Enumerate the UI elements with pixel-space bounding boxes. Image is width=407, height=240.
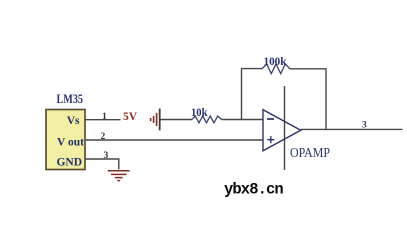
- svg-text:3: 3: [362, 121, 367, 131]
- svg-text:10k: 10k: [191, 107, 208, 119]
- wire ground to 10k: [160, 119, 192, 121]
- svg-text:GND: GND: [56, 157, 82, 169]
- resistor 10k: [192, 116, 222, 123]
- wire pin3 GND: [86, 159, 119, 169]
- svg-text:OPAMP: OPAMP: [290, 146, 330, 161]
- svg-text:ybx8.cn: ybx8.cn: [224, 180, 283, 198]
- rotated ground symbol at 10k input: [151, 109, 160, 131]
- wire output: [301, 128, 403, 130]
- wire feedback left vertical: [242, 69, 263, 120]
- svg-text:V out: V out: [57, 137, 84, 149]
- wire pin2 Vout to op-amp + input: [86, 139, 264, 141]
- svg-text:2: 2: [101, 132, 106, 142]
- op-amp plus sign: [267, 136, 274, 143]
- svg-text:1: 1: [102, 112, 107, 122]
- op-amp power rail vertical: [284, 86, 286, 170]
- svg-text:Vs: Vs: [67, 115, 80, 127]
- op-amp minus sign: [267, 118, 274, 120]
- svg-text:100k: 100k: [264, 56, 288, 68]
- LM35 body U1: [46, 110, 85, 170]
- resistor 100k: [262, 64, 290, 74]
- op-amp U2 triangle: [263, 110, 301, 151]
- wire pin1 Vs to 5V: [86, 119, 121, 121]
- svg-text:3: 3: [104, 151, 109, 161]
- ground symbol under pin3: [108, 171, 130, 181]
- wire feedback right vertical to output: [290, 69, 326, 130]
- wire 10k to op-amp minus input: [222, 119, 264, 121]
- svg-text:5V: 5V: [123, 111, 138, 123]
- svg-text:LM35: LM35: [57, 92, 84, 106]
